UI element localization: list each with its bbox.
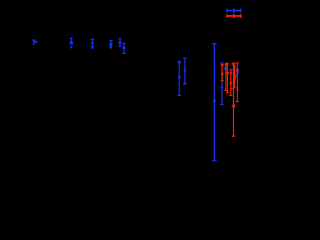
blue marker C1b xyxy=(35,41,37,43)
blue marker RB3b xyxy=(225,72,227,74)
red errorbar RR4 xyxy=(229,69,233,96)
blue marker C4b xyxy=(110,46,112,48)
blue errorbar C4a xyxy=(109,40,112,46)
blue errorbar RB4 xyxy=(229,69,232,76)
plot background xyxy=(0,0,255,179)
red errorbar RR3 xyxy=(226,63,229,93)
legend entry red xyxy=(226,14,241,18)
legend entry blue xyxy=(226,9,241,13)
blue errorbar C3a xyxy=(91,39,94,48)
red errorbar RR6 xyxy=(233,65,236,88)
blue errorbar C5b xyxy=(122,43,125,54)
blue errorbar M2 xyxy=(183,57,187,84)
blue errorbar L (long) xyxy=(212,43,217,161)
blue errorbar RB2 xyxy=(224,67,226,70)
red errorbar RR5 (tall) xyxy=(231,63,235,137)
blue errorbar M1 xyxy=(177,61,181,96)
blue errorbar RB6 xyxy=(236,68,239,74)
red errorbar RR2 xyxy=(224,63,228,91)
blue marker RB3 xyxy=(226,68,228,70)
blue marker RB5b xyxy=(235,74,237,76)
blue errorbar C1a xyxy=(33,39,36,44)
blue errorbar RB1 xyxy=(220,62,223,105)
blue marker C2b xyxy=(70,46,72,48)
red errorbar RR7 xyxy=(235,62,238,102)
blue marker C3b xyxy=(92,47,94,49)
blue errorbar C2a xyxy=(70,38,73,45)
blue errorbar RB5 xyxy=(233,65,235,69)
blue errorbar C5a xyxy=(118,38,121,46)
red errorbar RR1 xyxy=(221,64,224,81)
